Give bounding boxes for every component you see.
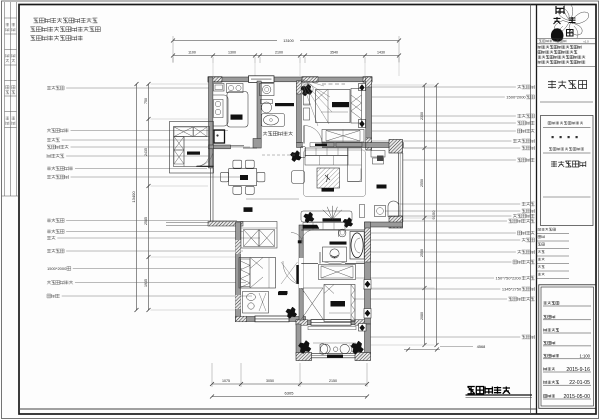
kitchen stove top [227, 84, 244, 93]
kitchen counter L [213, 95, 228, 126]
kitchen island outline [227, 92, 248, 128]
binding strip cell boundaries [5, 17, 17, 19]
label leader line y=282.5 [47, 281, 73, 285]
right lower mini dimension 4568 [404, 349, 440, 351]
four dots [552, 136, 554, 138]
kitchen/bath1 divider wall [257, 81, 261, 143]
balcony column marker top right [359, 324, 367, 332]
top wall outline [208, 77, 372, 82]
step wall study-south [365, 222, 403, 227]
project name row [551, 161, 586, 167]
study/bath3 fixtures [375, 206, 386, 217]
svg-text:2435: 2435 [144, 148, 148, 156]
binding strip cell text [6, 23, 9, 26]
hall console cabinet outline [301, 211, 352, 222]
sofa chaise foot curve [348, 169, 361, 182]
living room rug boundary [304, 150, 366, 197]
balcony south window wall [312, 353, 356, 355]
svg-text:1075: 1075 [222, 379, 230, 383]
signature row 2 [544, 315, 555, 318]
logo char 泰 [554, 17, 561, 24]
window in bedroom3 bottom wall [255, 316, 289, 322]
bathtub [350, 232, 364, 260]
balcony door threshold track [308, 327, 356, 330]
right label leader y=141 [366, 140, 511, 142]
dining label dark text [240, 175, 248, 180]
frame inner bottom line [19, 408, 537, 410]
label leader line y=130.5 [47, 129, 69, 133]
svg-text:1345*2750: 1345*2750 [502, 287, 522, 292]
stair X lower [174, 150, 184, 164]
right label leader y=216 [398, 215, 511, 217]
top exterior wall band [208, 77, 372, 82]
left exterior wall (kitchen) [209, 77, 213, 168]
top dim extension lines [172, 57, 174, 63]
left binding strip columns [4, 2, 6, 196]
rule under company info [537, 66, 597, 68]
company info tiny rows [538, 46, 581, 49]
side table [292, 171, 305, 184]
bed2 pillow bar [331, 301, 346, 307]
bed3 [239, 258, 276, 289]
bath3 toilet [388, 201, 399, 217]
window in bedroom2 bottom wall [311, 320, 351, 326]
plant living [290, 151, 301, 162]
bedroom1 wardrobe [322, 130, 364, 143]
core door arc [196, 153, 210, 167]
kitchen lower cabinet [214, 130, 225, 143]
bed3 left wall hatch [236, 240, 241, 254]
bedroom1 south wall [297, 143, 366, 148]
west wall stub at dining/bed3 [208, 222, 243, 227]
margin line left of title block [530, 5, 532, 415]
hall radial lamp rays [323, 206, 342, 220]
svg-text:2550: 2550 [420, 249, 424, 257]
company tiny line [539, 40, 566, 43]
signature row 6 [544, 367, 555, 370]
dining/hall boundary line [246, 198, 299, 200]
svg-text:4568: 4568 [477, 345, 485, 349]
left segment dimension [148, 84, 150, 310]
bed3 pillow strip [241, 259, 251, 287]
right exterior wall (bath2/bed2) [365, 222, 371, 324]
hall black bar [279, 291, 288, 294]
label leader line y=140 [47, 138, 60, 142]
balcony corner piers hatched [296, 353, 312, 361]
general notes text, 3 lines [34, 18, 98, 23]
right label leader y=337 [370, 336, 520, 338]
kitchen south wall [209, 145, 231, 149]
svg-text:1500*2000: 1500*2000 [47, 266, 67, 271]
bed2 [324, 285, 355, 322]
dining table set [229, 169, 257, 186]
neighbor unit wall line [166, 222, 208, 224]
right label leader y=160 [403, 159, 516, 161]
bed1 nightstand [304, 94, 310, 106]
bedroom3 door opening [299, 258, 303, 288]
elevator shaft X right [194, 127, 208, 137]
bedroom1 door opening [303, 142, 322, 148]
svg-text:6305: 6305 [285, 391, 295, 396]
toilet bath1 [261, 100, 273, 104]
drawing title 平面布置图 [468, 387, 511, 394]
svg-text:2080: 2080 [420, 312, 424, 320]
hall plant by bedroom2 door [286, 307, 297, 318]
bedroom3 left exterior wall [236, 222, 241, 321]
washing machine [260, 84, 275, 96]
right label leader y=97 [372, 96, 505, 98]
entry threshold [197, 165, 214, 167]
extension lines down to walls [212, 63, 214, 76]
bath2 vanity front curve [324, 262, 346, 264]
bathroom2 toilet [339, 229, 346, 237]
bath2 door arc [302, 230, 315, 242]
bedroom3 door leaf + swing [296, 265, 298, 284]
label leader line y=220.5 [47, 219, 64, 223]
sofa seats [305, 156, 348, 166]
stair X upper [174, 137, 184, 151]
right label leader y=299 [354, 298, 507, 300]
NE corner pier of study [389, 140, 403, 154]
top segment dimension line [173, 55, 399, 57]
right label leader y=221 [398, 220, 507, 222]
right label leader y=233 [368, 232, 516, 234]
signature row 5 [544, 354, 560, 357]
kitchen sliding door [231, 145, 245, 147]
svg-text:3050: 3050 [266, 379, 274, 383]
middle project box [541, 116, 594, 226]
balcony plant left [298, 341, 311, 354]
sofa back cushions [305, 148, 348, 156]
bedroom1 window dashes [322, 83, 345, 85]
elevator shaft X left [174, 127, 193, 137]
coffee table hatched [317, 168, 340, 188]
strip end line [2, 195, 20, 197]
bottom total dimension [212, 396, 367, 398]
signature box (double border) [539, 285, 596, 409]
divider wall foot [253, 139, 261, 149]
core black bar [187, 152, 200, 155]
bed1 [316, 90, 351, 123]
flower leaves [559, 26, 578, 38]
logo char 仙 [567, 30, 574, 37]
right label leader y=240 [368, 239, 520, 241]
balcony plant right [351, 341, 364, 354]
bed1 pillow bar [332, 102, 349, 107]
label leader line y=156 [47, 154, 64, 158]
right label leader y=131 [372, 130, 516, 132]
left dim extension lines to plan [151, 83, 209, 85]
svg-text:2015-05-00: 2015-05-00 [563, 394, 590, 400]
svg-text:1430: 1430 [377, 51, 385, 55]
svg-text:2550: 2550 [420, 179, 424, 187]
right label leader y=262 [356, 261, 511, 263]
bath1 washbasin [262, 114, 285, 127]
bedroom3 dresser [243, 292, 269, 314]
right label leader y=123 [366, 122, 516, 124]
bed3 black bar [278, 292, 287, 296]
svg-text:2585: 2585 [144, 217, 148, 225]
right label leader y=204 [399, 203, 520, 205]
bath3 shelf [360, 205, 365, 218]
bedroom1 corner light rays [301, 79, 332, 126]
hall dark shoe bar [303, 225, 319, 229]
bedroom2 wardrobe [319, 265, 356, 280]
rule below 建设单位 [540, 101, 593, 103]
label 洗衣烘干区 [263, 132, 293, 136]
signature row 1 [544, 301, 560, 304]
bedroom3 wardrobe [241, 222, 277, 249]
svg-text:2015-9-16: 2015-9-16 [566, 367, 590, 373]
project tiny line 1 [548, 122, 583, 125]
sofa chaise [348, 148, 362, 182]
kitchen island black top [231, 115, 243, 120]
logo char 和 [556, 6, 564, 14]
signature row 4 [544, 341, 555, 344]
core grid vline [183, 137, 185, 167]
right dim extension lines to plan [372, 84, 435, 86]
bedroom3 right wall / hall west wall [299, 225, 303, 320]
title block header rules [537, 38, 597, 40]
signature row 8 [544, 394, 555, 397]
hall console black top [323, 218, 342, 221]
top wall window opening [249, 76, 275, 83]
right label leader y=211 [385, 210, 520, 212]
balcony side walls [296, 324, 301, 354]
label leader line y=168.5 [47, 167, 73, 171]
bed1 side dresser hatched strip [351, 89, 362, 124]
svg-text:13400: 13400 [131, 191, 136, 203]
stair-elevator core outer [170, 122, 214, 174]
svg-text:1300: 1300 [228, 51, 236, 55]
project tiny line 2 [549, 148, 584, 151]
right total dimension [436, 85, 438, 345]
study black bar [377, 185, 387, 189]
bottom wall bedroom3 [236, 317, 306, 322]
bath1 counter black bar [275, 103, 294, 106]
bathroom2 walls [301, 229, 364, 231]
bottom dim extension lines [211, 363, 213, 387]
signature row 7 [544, 381, 560, 384]
top total dimension 13100 [173, 40, 277, 42]
kitchen sink cabinet [214, 84, 225, 92]
bottom wall bedroom2 [296, 320, 370, 325]
bath2 counter black bar [330, 242, 347, 245]
balcony wash basin circles [320, 344, 328, 354]
right label leader y=289 [363, 288, 500, 290]
hall plant [304, 212, 314, 223]
bedroom1 wall column marks [359, 84, 366, 91]
wall shelf segments (bedroom1 south wall, living side) [310, 143, 334, 147]
svg-text:150*750*2200: 150*750*2200 [496, 276, 522, 281]
svg-text:1100: 1100 [188, 51, 196, 55]
right label leader y=87 [372, 86, 516, 88]
study east wall (window wall) [398, 153, 400, 222]
bath1/bedroom1 divider wall [297, 81, 302, 143]
svg-text:1935: 1935 [144, 279, 148, 287]
right label leader y=278 [356, 277, 494, 279]
mid box rule [543, 196, 591, 198]
svg-text:v1.0: v1.0 [583, 40, 589, 44]
logo: narcissus flower petals [564, 4, 573, 21]
bedroom1 door leaf + swing [303, 126, 305, 144]
left total dimension 13400 [136, 84, 138, 310]
bed2 side zigzag [351, 285, 355, 320]
right exterior wall (bedroom1) [366, 77, 372, 150]
sofa arm left [301, 147, 306, 158]
bed3 blanket folds [250, 258, 263, 289]
svg-text:22-01-05: 22-01-05 [569, 380, 590, 386]
core inner rect [174, 127, 210, 167]
label leader line y=177 [47, 175, 69, 179]
label leader line y=296 [47, 294, 60, 298]
svg-text:1500*2000: 1500*2000 [506, 95, 526, 100]
neighbor unit wall line 2 [166, 224, 208, 226]
svg-text:2150: 2150 [329, 379, 337, 383]
bed2 right wall window boxes [364, 280, 371, 290]
logo blob [551, 29, 563, 42]
plant bedroom1 [301, 84, 313, 96]
entry door arc [197, 150, 213, 166]
svg-text:13100: 13100 [283, 39, 294, 43]
logo char 水 [569, 17, 576, 24]
top wall hatched blocks [208, 77, 222, 83]
svg-text:750: 750 [144, 98, 148, 104]
svg-text:1:100: 1:100 [580, 354, 591, 359]
hall cabinet faces row [303, 223, 345, 230]
label leader line y=147 [47, 145, 69, 149]
right label leader y=148 [403, 147, 520, 149]
text 建设单位 [548, 81, 587, 89]
left wall lower thin [210, 168, 212, 222]
svg-text:2100: 2100 [275, 51, 283, 55]
corridor dashed ceiling line [262, 154, 295, 156]
living rug black bar [322, 188, 335, 192]
SE pier of study [389, 216, 403, 228]
kitchen burner unit [214, 100, 224, 118]
bath2 vanity [323, 247, 347, 262]
label leader line y=238 [47, 236, 55, 240]
right segment dimension [424, 85, 426, 345]
balcony south black sill bar [327, 355, 343, 358]
right label leader y=252 [367, 251, 516, 253]
label leader line y=231.5 [47, 230, 64, 234]
svg-text:3540: 3540 [330, 51, 338, 55]
bottom segment dimension [212, 383, 367, 385]
bedroom2 door X and swing [302, 288, 324, 319]
title block divider [536, 5, 538, 415]
bedroom3 entry door arc [291, 233, 303, 245]
signature row 3 [544, 328, 560, 331]
bath2 door leaf [298, 240, 302, 243]
label leader line y=251 [47, 249, 64, 253]
title underline thick [466, 394, 533, 396]
core grid hline [174, 136, 210, 138]
hall plant right [343, 218, 353, 228]
title underline thin [466, 397, 533, 399]
bed1 blanket folds [316, 90, 329, 123]
label leader line y=88 [47, 86, 64, 90]
study room furniture [371, 151, 385, 158]
right label leader y=116 [366, 115, 516, 117]
dining black mark [244, 207, 253, 212]
wall bedroom1-south / study north [366, 143, 404, 148]
revision table rows [538, 228, 556, 231]
